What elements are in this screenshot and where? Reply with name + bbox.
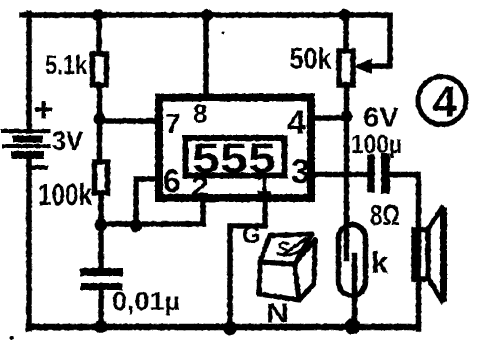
battery B1 3V (3, 131, 49, 155)
wire pin 3 (311, 172, 367, 178)
magnet cube front face (259, 262, 299, 300)
lamp K envelope (339, 225, 366, 296)
wire pin 7 (100, 118, 160, 124)
junction top 5.1k (92, 9, 104, 21)
wire 50k bottom through 6V node to lamp K (344, 85, 350, 258)
wire 100u to speaker branch (390, 175, 419, 330)
svg-text:3: 3 (291, 153, 310, 191)
speaker LS cone (428, 208, 444, 301)
junction node 6V (341, 111, 353, 123)
op-amp U1 555 inner label box (186, 138, 285, 176)
junction bottom lamp K (345, 319, 361, 335)
magnet cube top face (260, 234, 312, 264)
wire left rail upper (26, 13, 32, 131)
svg-text:100µ: 100µ (351, 129, 402, 159)
svg-text:5.1k: 5.1k (45, 50, 88, 80)
svg-text:50k: 50k (290, 43, 332, 76)
wire left rail lower (26, 158, 32, 329)
svg-text:6V: 6V (363, 102, 399, 133)
magnet cube flap crease (284, 238, 307, 254)
battery minus sign (33, 166, 46, 170)
potentiometer 50k wiper arrow (353, 59, 372, 75)
speck 1 (10, 336, 14, 340)
svg-text:4: 4 (433, 78, 458, 127)
svg-text:0,01µ: 0,01µ (112, 286, 180, 316)
resistor 5.1k (93, 54, 107, 85)
svg-text:3V: 3V (52, 126, 83, 156)
svg-text:S: S (276, 238, 290, 261)
capacitor 0.01u (84, 272, 119, 287)
speck 2 (222, 32, 225, 35)
svg-text:7: 7 (165, 108, 181, 139)
junction bottom cap (95, 320, 108, 333)
wire cap to bottom rail (98, 290, 104, 327)
speaker LS frame (414, 230, 428, 279)
potentiometer 50k (339, 51, 353, 85)
wire pin 4 (311, 115, 346, 121)
wire node to 100k (97, 118, 103, 162)
resistor 100k (95, 162, 108, 193)
svg-text:4: 4 (287, 104, 306, 142)
junction node pins 2-6 left (95, 218, 108, 231)
svg-text:G: G (242, 222, 261, 249)
wire 50k branch top (343, 15, 349, 51)
op-amp U1 555 outer body (159, 98, 311, 199)
svg-text:100k: 100k (38, 177, 93, 212)
wire bottom rail (29, 324, 418, 331)
wire 100k bottom to node (98, 193, 104, 268)
wire 50k wiper loop (371, 15, 390, 66)
circle figure number 4 (418, 77, 466, 127)
junction top 50k (339, 9, 351, 21)
svg-text:8: 8 (193, 99, 207, 129)
svg-text:8Ω: 8Ω (370, 200, 400, 232)
wire 5.1k top (96, 15, 102, 52)
wire 5.1k bottom to node (97, 85, 103, 118)
label S swash (280, 248, 303, 255)
wire pins 2-6 tie (101, 179, 203, 224)
lamp K lower electrode and wire (352, 256, 358, 329)
magnet cube right face (295, 240, 316, 300)
svg-text:555: 555 (192, 135, 276, 182)
junction top pin8 (201, 9, 213, 21)
wire top rail (22, 12, 390, 18)
capacitor 100u (371, 158, 386, 189)
junction bottom pin1 (223, 321, 237, 335)
svg-text:N: N (266, 298, 289, 328)
junction node pin 6 drop (130, 219, 143, 232)
junction node pin7 (94, 113, 106, 125)
svg-text:6: 6 (163, 163, 181, 199)
svg-text:k: k (371, 245, 389, 280)
wire pin 8 (203, 15, 209, 97)
battery plus sign (37, 103, 50, 116)
wire pin 1 to ground rail (230, 200, 265, 327)
